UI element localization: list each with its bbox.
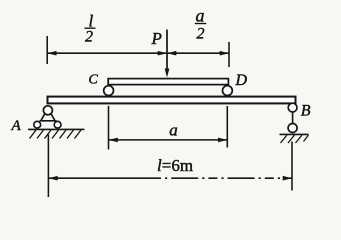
support A left roller: [34, 121, 41, 128]
label fraction l/2: [85, 12, 96, 46]
support A ground line: [28, 128, 85, 130]
arrowhead a right: [218, 138, 227, 143]
label fraction a/2: [195, 5, 207, 42]
support A pin circle: [43, 106, 52, 115]
svg-text:l=6m: l=6m: [157, 156, 193, 175]
svg-text:D: D: [235, 72, 248, 89]
support B upper pin circle: [288, 103, 297, 112]
support B ground line: [280, 133, 309, 135]
dimension a/2 extension tick right: [228, 42, 230, 67]
svg-text:B: B: [301, 103, 311, 120]
svg-text:A: A: [11, 118, 22, 134]
svg-text:a: a: [196, 5, 205, 25]
support B hatching: [281, 135, 309, 143]
arrowhead a left: [109, 138, 118, 143]
svg-text:P: P: [151, 29, 162, 48]
arrowhead l/2 right: [158, 51, 167, 56]
force P arrow line: [166, 30, 168, 71]
svg-text:a: a: [169, 120, 178, 139]
support A hatching: [30, 130, 82, 139]
dimension line l/2: [47, 52, 167, 54]
support A right roller: [54, 121, 61, 128]
arrowhead a/2 left: [167, 51, 176, 56]
support A bracket: [40, 114, 57, 121]
arrowhead l=6m left: [48, 176, 57, 181]
arrowhead P down: [165, 69, 170, 78]
support B link: [292, 112, 294, 124]
dimension line a: [109, 139, 228, 141]
svg-text:2: 2: [197, 26, 205, 43]
dimension l=6m extension line left: [47, 135, 49, 198]
roller under C: [104, 86, 114, 96]
dimension l=6m extension line right: [291, 142, 293, 191]
arrowhead a/2 right: [220, 51, 229, 56]
dimension line l=6m (chain): [48, 177, 152, 179]
roller under D: [223, 86, 233, 96]
wire: upper beam CD: [108, 79, 228, 85]
svg-text:C: C: [89, 73, 99, 88]
support B lower pin circle: [288, 124, 297, 133]
dimension l/2 extension tick left: [46, 36, 48, 64]
dimension a extension line left: [108, 106, 110, 150]
dimension a extension line right: [226, 106, 228, 148]
arrowhead l=6m right: [283, 176, 292, 181]
wire: main beam AB: [48, 97, 296, 104]
arrowhead l/2 left: [47, 51, 56, 56]
dimension a/2 line: [167, 52, 229, 54]
svg-text:2: 2: [85, 29, 93, 46]
